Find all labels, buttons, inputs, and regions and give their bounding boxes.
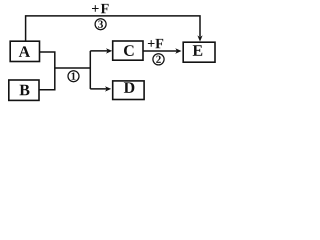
box E <box>183 42 215 62</box>
box D <box>113 81 144 100</box>
wire branch vertical <box>89 51 91 89</box>
label + F top <box>92 4 109 13</box>
wire bracket from A right and B right to junction <box>39 52 55 90</box>
wire arrow into C <box>90 48 112 53</box>
box C <box>113 41 143 60</box>
arrowhead down into E top <box>197 35 202 41</box>
label +F middle <box>148 39 163 48</box>
wire arrow into D <box>90 86 111 91</box>
box B <box>9 80 39 100</box>
circled 3 <box>95 19 106 30</box>
circled 2 <box>153 54 164 65</box>
circled 1 <box>68 71 79 82</box>
wire feedback A top to E top <box>26 16 200 41</box>
wire tap junction to branch point <box>55 67 91 69</box>
wire arrow C to E <box>143 48 181 53</box>
box A <box>10 41 39 61</box>
